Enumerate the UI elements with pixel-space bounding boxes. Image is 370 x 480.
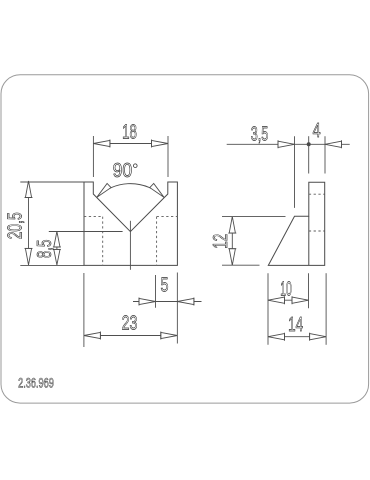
dimension 90deg: arrow right: [150, 184, 164, 198]
dimension 5: dimension line with tails: [133, 301, 202, 303]
dimension 5: extension line left: [155, 275, 157, 308]
dimension 14: extension line right: [325, 273, 327, 345]
svg-text:12: 12: [209, 234, 232, 249]
body outline with 90-degree V-groove: [84, 182, 177, 265]
dimension 4: extension line left: [308, 136, 310, 173]
dimension 18: dimension line: [93, 143, 168, 145]
dimension 12: arrow top: [229, 217, 235, 234]
dimension 18: arrow left: [93, 140, 110, 146]
dimension 3,5: extension line: [294, 136, 296, 208]
dimension 90deg: arrow left: [97, 184, 111, 198]
svg-text:2.36.969: 2.36.969: [18, 375, 54, 390]
svg-text:8,5: 8,5: [33, 240, 56, 259]
svg-text:18: 18: [122, 120, 137, 143]
dimension 12: dimension line: [231, 217, 233, 266]
svg-text:20,5: 20,5: [4, 212, 27, 239]
dimension 5: arrow left: [139, 298, 156, 304]
hidden line: V apex depth: [309, 230, 325, 232]
dimension 23: extension line left: [83, 273, 85, 347]
dimension 8,5: dimension line: [56, 232, 58, 265]
dimension 10: arrow left: [268, 297, 285, 303]
dimension 14: dimension line: [268, 336, 326, 338]
svg-text:90: 90: [113, 159, 133, 182]
side view outline: wedge + column: [268, 182, 324, 265]
dimension 20,5: dimension line: [28, 181, 30, 265]
dimension 3,5: arrow: [278, 141, 295, 147]
dimension 18: arrow right: [152, 140, 169, 146]
dimension 12: extension line top: [222, 216, 286, 218]
dimension 23: extension line right: [176, 273, 178, 344]
dimension 8,5: arrow top: [54, 232, 60, 248]
dimension 90deg: arc: [97, 184, 164, 198]
hidden line: right slot vertical: [156, 217, 158, 266]
dimension 5: arrow right: [177, 298, 194, 304]
dimension 12: arrow bottom: [229, 249, 235, 266]
svg-text:14: 14: [288, 313, 303, 336]
dimension 10: extension line left (shared with 14): [267, 273, 269, 345]
dimension 10: dimension line: [268, 299, 309, 301]
dimension 12: extension line bottom: [222, 264, 260, 266]
dimension 8,5: leader to apex: [49, 231, 123, 233]
drawing sheet border frame: [1, 75, 369, 403]
dimension 3,5 and 4: shared dimension line: [227, 143, 350, 145]
dimension 23: arrow left: [84, 332, 101, 338]
svg-text:3,5: 3,5: [251, 122, 269, 145]
hidden line: left slot horizontal: [84, 216, 103, 218]
dimension 23: arrow right: [161, 332, 178, 338]
dimension 8,5: arrow bottom: [54, 249, 60, 265]
svg-text:5: 5: [161, 274, 169, 297]
dimension 18: extension line left: [92, 136, 94, 177]
dimension 10: extension line right: [308, 273, 310, 308]
hidden line: V lip depth: [309, 193, 325, 195]
dimension 20,5: extension line top: [20, 181, 84, 183]
dimension 20,5: extension line bottom: [20, 264, 84, 266]
side view: column left edge lower part: [308, 216, 310, 265]
hidden line: left slot vertical: [102, 217, 104, 266]
svg-text:23: 23: [122, 312, 138, 335]
dimension 23: dimension line: [84, 335, 177, 337]
dimension 20,5: arrow top: [25, 181, 31, 198]
svg-text:4: 4: [313, 119, 321, 142]
dimension 3,5/4: dot terminator: [307, 142, 311, 146]
dimension 14: arrow left: [268, 334, 285, 340]
dimension 14: arrow right: [310, 334, 327, 340]
centerline through V apex: [129, 221, 131, 270]
dimension 20,5: arrow bottom: [25, 248, 31, 265]
svg-text:10: 10: [280, 277, 292, 300]
dimension 4: extension line right: [324, 136, 326, 173]
dimension 18: extension line right: [167, 136, 169, 177]
dimension 10: arrow right: [292, 297, 309, 303]
dimension 4: arrow: [325, 141, 342, 147]
hidden line: right slot horizontal: [157, 216, 178, 218]
